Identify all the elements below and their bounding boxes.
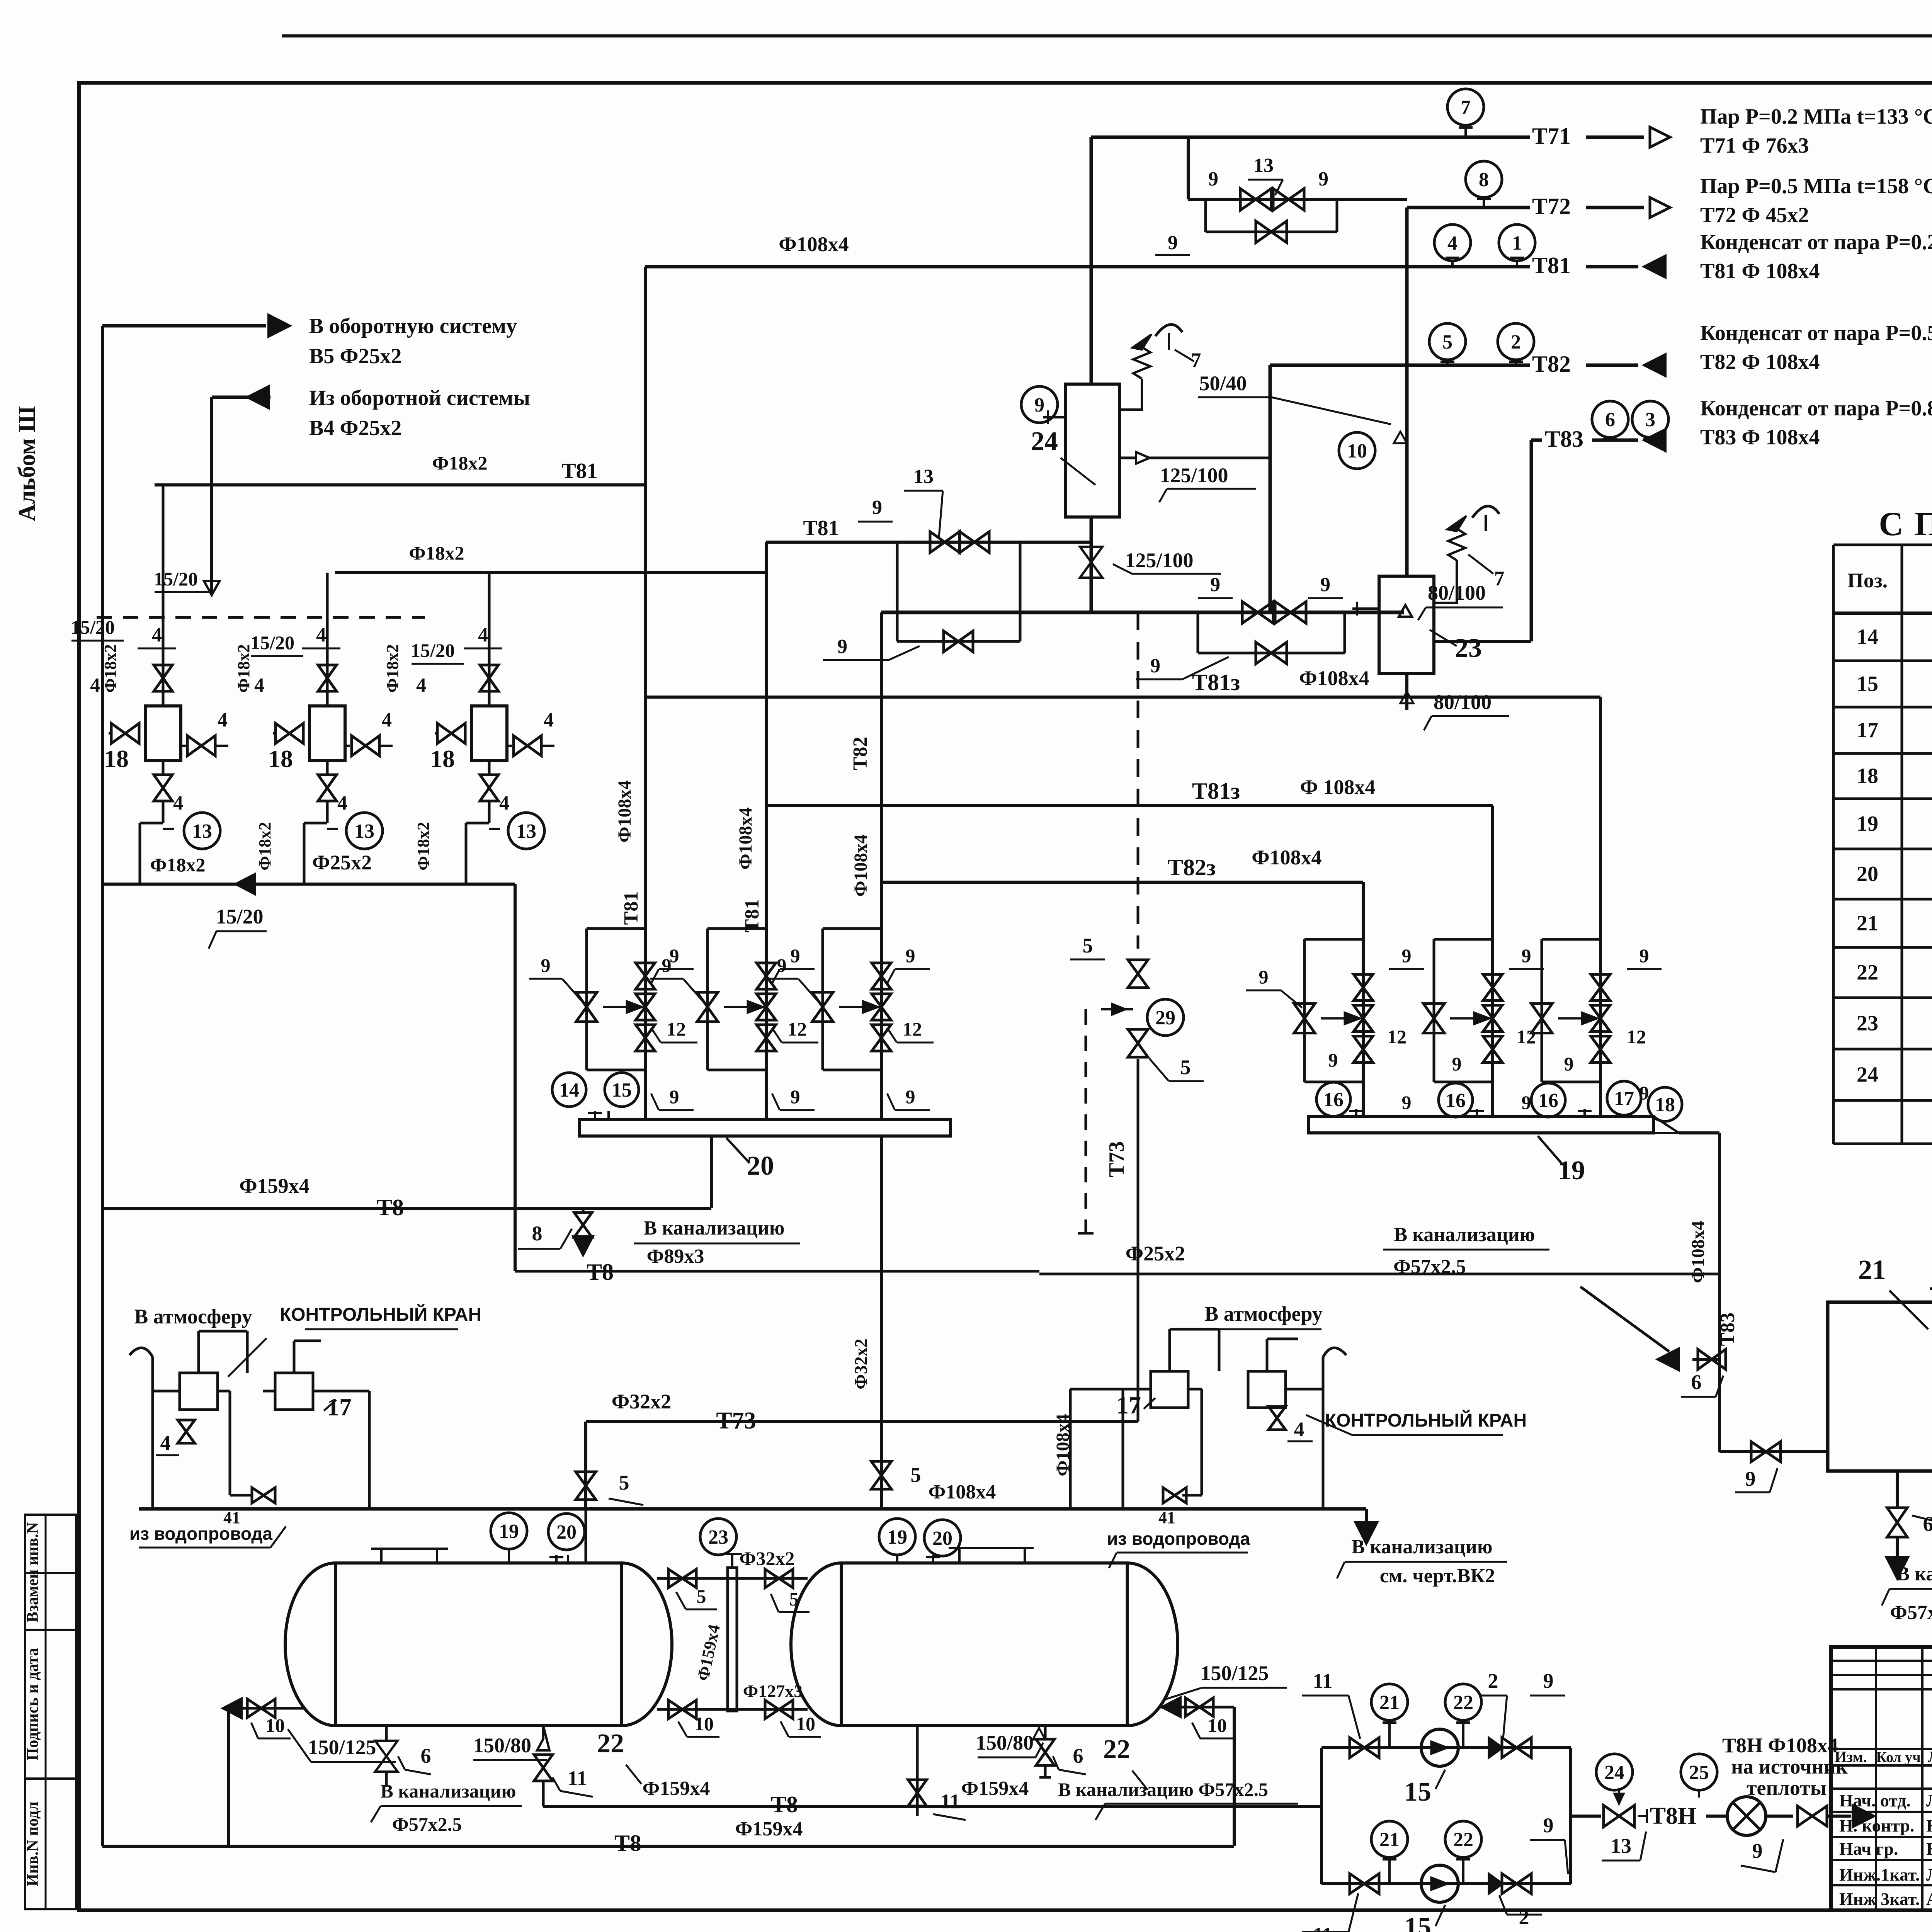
svg-text:4: 4 [478,624,488,646]
svg-text:17: 17 [1116,1391,1141,1419]
svg-text:150/125: 150/125 [1200,1662,1269,1685]
svg-text:16: 16 [1538,1090,1558,1112]
svg-text:6: 6 [1923,1512,1932,1536]
svg-text:6: 6 [1691,1371,1702,1394]
svg-text:2: 2 [1519,1906,1529,1929]
svg-text:150/80: 150/80 [473,1734,531,1757]
svg-text:9: 9 [541,954,551,976]
svg-text:Конденсат от пара Р=0.2 МПа t=: Конденсат от пара Р=0.2 МПа t=133 °С [1700,230,1932,254]
svg-text:4: 4 [382,709,392,731]
svg-text:Ф108х4: Ф108х4 [1252,846,1321,869]
svg-text:Т81з: Т81з [1192,778,1240,804]
svg-text:Т81: Т81 [620,891,642,925]
svg-text:9: 9 [1318,168,1328,190]
svg-text:см. черт.ВК2: см. черт.ВК2 [1380,1565,1495,1587]
svg-text:21: 21 [1379,1692,1400,1714]
svg-text:10: 10 [265,1714,285,1736]
svg-text:Т8: Т8 [614,1830,641,1856]
svg-text:9: 9 [1402,945,1412,966]
svg-text:9: 9 [906,945,915,966]
svg-text:Ф18х2: Ф18х2 [150,854,206,876]
svg-text:15: 15 [1404,1912,1431,1932]
svg-text:Ф18х2: Ф18х2 [101,644,120,693]
svg-text:Инж 3кат.: Инж 3кат. [1839,1889,1920,1909]
svg-text:22: 22 [1857,961,1878,985]
svg-text:15/20: 15/20 [154,568,198,590]
svg-text:125/100: 125/100 [1125,549,1193,572]
svg-text:24: 24 [1604,1762,1624,1784]
svg-text:9: 9 [1320,574,1330,596]
svg-text:22: 22 [1453,1692,1473,1714]
svg-text:Ф108х4: Ф108х4 [779,233,849,256]
svg-text:Т8Н: Т8Н [1650,1803,1697,1829]
svg-text:2: 2 [1511,331,1521,353]
svg-text:20: 20 [556,1521,577,1543]
svg-text:9: 9 [1210,574,1220,596]
svg-text:КОНТРОЛЬНЫЙ КРАН: КОНТРОЛЬНЫЙ КРАН [1325,1410,1527,1431]
svg-text:15: 15 [1404,1777,1431,1807]
svg-text:В атмосферу: В атмосферу [1204,1302,1323,1325]
svg-text:Конденсат от пара Р=0.5 МПа t=: Конденсат от пара Р=0.5 МПа t=158 °С [1700,321,1932,345]
svg-text:Т82: Т82 [849,737,871,770]
svg-text:13: 13 [192,820,212,842]
svg-text:Нач. отд.: Нач. отд. [1839,1791,1911,1810]
svg-text:Конденсат от пара Р=0.8 МПа t=: Конденсат от пара Р=0.8 МПа t=175 °С [1700,396,1932,420]
svg-text:Ф25х2: Ф25х2 [1126,1242,1185,1265]
svg-text:В канализацию: В канализацию [381,1780,516,1802]
svg-text:Т8: Т8 [377,1195,404,1220]
svg-text:9: 9 [1208,168,1218,190]
svg-text:7: 7 [1461,97,1471,119]
svg-text:Авдеева: Авдеева [1926,1889,1932,1909]
svg-text:13: 13 [516,820,536,842]
svg-text:80/100: 80/100 [1434,690,1492,714]
svg-text:20: 20 [747,1151,774,1181]
svg-text:Ф89х3: Ф89х3 [647,1245,704,1267]
svg-text:5: 5 [1083,934,1093,957]
svg-text:22: 22 [597,1729,624,1759]
svg-text:9: 9 [1639,945,1649,966]
svg-text:Т71: Т71 [1532,123,1571,149]
svg-text:Т81 Ф 108х4: Т81 Ф 108х4 [1700,259,1820,283]
svg-text:В4 Ф25х2: В4 Ф25х2 [309,416,401,440]
svg-text:13: 13 [1253,155,1274,177]
svg-text:Лопухина: Лопухина [1926,1791,1932,1810]
svg-text:17: 17 [1857,718,1878,742]
svg-text:18: 18 [104,745,129,772]
svg-text:8: 8 [532,1222,543,1245]
svg-text:Ф18х2: Ф18х2 [383,644,402,693]
svg-text:17: 17 [327,1393,352,1421]
svg-text:12: 12 [1627,1026,1646,1048]
svg-text:7: 7 [1494,567,1505,590]
svg-text:15/20: 15/20 [411,639,455,661]
svg-text:4: 4 [218,709,228,731]
svg-text:18: 18 [430,745,455,772]
svg-text:5: 5 [911,1463,921,1486]
svg-text:Т81: Т81 [803,516,839,540]
svg-text:Пар Р=0.5 МПа t=158 °С: Пар Р=0.5 МПа t=158 °С [1700,174,1932,198]
svg-text:9: 9 [872,497,882,519]
svg-text:11: 11 [940,1790,960,1813]
svg-text:из водопровода: из водопровода [129,1524,273,1544]
svg-text:Т72: Т72 [1532,194,1571,219]
svg-text:18: 18 [1857,764,1878,788]
svg-text:Т73: Т73 [716,1408,756,1434]
svg-text:9: 9 [777,954,787,976]
svg-text:В канализацию: В канализацию [1394,1224,1535,1246]
svg-text:на источник: на источник [1731,1755,1848,1778]
svg-text:9: 9 [837,636,847,658]
svg-text:13: 13 [913,466,934,488]
svg-text:15/20: 15/20 [71,616,115,638]
svg-text:Ф159х4: Ф159х4 [643,1777,710,1799]
svg-text:Т71 Ф 76х3: Т71 Ф 76х3 [1700,134,1809,158]
svg-text:9: 9 [662,954,672,976]
svg-text:Т83 Ф 108х4: Т83 Ф 108х4 [1700,425,1820,449]
svg-text:Т72 Ф 45х2: Т72 Ф 45х2 [1700,203,1809,227]
svg-text:20: 20 [932,1527,952,1549]
svg-text:Ф108х4: Ф108х4 [614,780,635,842]
svg-text:22: 22 [1103,1735,1130,1764]
svg-text:Ф108х4: Ф108х4 [735,807,756,869]
svg-text:Т8: Т8 [587,1259,614,1285]
svg-text:23: 23 [1857,1012,1878,1036]
svg-text:В канализацию: В канализацию [1352,1536,1493,1558]
svg-text:4: 4 [337,792,347,814]
svg-text:16: 16 [1323,1089,1344,1111]
svg-text:10: 10 [796,1713,815,1735]
svg-text:Ф108х4: Ф108х4 [850,834,871,896]
svg-text:4: 4 [499,792,509,814]
svg-text:В канализацию: В канализацию [644,1217,785,1239]
svg-text:13: 13 [354,820,374,842]
svg-text:Инв.N подл: Инв.N подл [24,1801,42,1886]
svg-text:4: 4 [1447,232,1458,254]
svg-text:5: 5 [1442,331,1452,353]
svg-text:8: 8 [1479,169,1489,191]
svg-text:9: 9 [906,1086,915,1107]
svg-text:18: 18 [268,745,293,772]
svg-text:14: 14 [559,1079,579,1101]
svg-text:9: 9 [1752,1839,1763,1862]
svg-text:19: 19 [1857,812,1878,836]
svg-text:Т73: Т73 [1105,1141,1129,1177]
svg-text:9: 9 [1564,1053,1574,1075]
svg-text:Т83: Т83 [1717,1313,1739,1346]
svg-text:11: 11 [1313,1669,1332,1692]
svg-text:В канализацию: В канализацию [1896,1563,1932,1585]
svg-text:Ф108х4: Ф108х4 [1299,667,1369,690]
svg-text:9: 9 [1328,1049,1338,1071]
svg-text:19: 19 [887,1526,907,1548]
svg-text:9: 9 [1452,1053,1462,1075]
svg-text:12: 12 [903,1018,922,1040]
svg-text:24: 24 [1857,1063,1878,1087]
svg-text:10: 10 [1347,440,1367,462]
svg-text:Из оборотной системы: Из оборотной системы [309,386,530,410]
svg-text:4: 4 [152,624,162,646]
svg-text:В5 Ф25х2: В5 Ф25х2 [309,344,401,368]
svg-text:Пар Р=0.2 МПа t=133 °С: Пар Р=0.2 МПа t=133 °С [1700,105,1932,129]
svg-text:23: 23 [1455,633,1482,663]
svg-text:19: 19 [499,1520,519,1543]
svg-text:9: 9 [1543,1669,1554,1692]
svg-text:В оборотную систему: В оборотную систему [309,314,517,338]
svg-text:Ф159х4: Ф159х4 [239,1174,309,1197]
svg-text:Альбом Ш: Альбом Ш [14,406,40,521]
svg-text:4: 4 [544,709,554,731]
svg-text:4: 4 [90,674,100,696]
svg-text:Ф 108х4: Ф 108х4 [1300,776,1376,799]
svg-text:9: 9 [1150,655,1160,677]
svg-text:15: 15 [612,1079,632,1101]
svg-text:4: 4 [173,792,183,814]
svg-text:Т81з: Т81з [1192,670,1240,695]
svg-text:21: 21 [1857,912,1878,935]
svg-text:Ф159х4: Ф159х4 [735,1818,803,1840]
svg-text:Т81: Т81 [1532,253,1571,278]
svg-text:Инж.1кат.: Инж.1кат. [1839,1865,1920,1884]
svg-text:Лист: Лист [1928,1748,1932,1765]
svg-text:18: 18 [1655,1094,1675,1116]
svg-text:4: 4 [254,674,264,696]
svg-text:22: 22 [1453,1829,1473,1851]
svg-text:15: 15 [1857,672,1878,696]
svg-text:10: 10 [694,1713,714,1735]
svg-text:В атмосферу: В атмосферу [134,1305,252,1328]
svg-text:Ф127х3: Ф127х3 [743,1681,803,1701]
svg-text:2: 2 [1488,1669,1498,1692]
svg-text:из водопровода: из водопровода [1107,1529,1250,1549]
svg-text:Ф57х2.5: Ф57х2.5 [1393,1256,1466,1278]
svg-text:3: 3 [1645,409,1655,431]
svg-text:4: 4 [1294,1418,1304,1441]
svg-text:Т81: Т81 [561,459,597,483]
svg-text:16: 16 [1446,1090,1466,1112]
svg-text:24: 24 [1031,427,1058,456]
svg-text:Ф32х2: Ф32х2 [740,1548,795,1569]
svg-text:В канализацию Ф57х2.5: В канализацию Ф57х2.5 [1058,1779,1268,1800]
svg-text:Т8: Т8 [771,1792,798,1817]
svg-text:Подпись и дата: Подпись и дата [24,1648,42,1760]
svg-text:6: 6 [1605,409,1615,431]
svg-text:150/80: 150/80 [976,1731,1034,1754]
svg-text:15/20: 15/20 [216,905,263,928]
svg-text:Т83: Т83 [1545,426,1583,452]
svg-text:1: 1 [1512,232,1522,254]
svg-text:5: 5 [1180,1056,1191,1079]
svg-text:Ф18х2: Ф18х2 [432,452,488,474]
svg-text:Т8Н Ф108х4: Т8Н Ф108х4 [1722,1734,1838,1757]
svg-text:11: 11 [567,1767,587,1790]
svg-text:Т82: Т82 [1532,351,1571,377]
svg-text:21: 21 [1858,1254,1886,1285]
svg-text:Нач гр.: Нач гр. [1839,1839,1898,1859]
svg-text:Т82з: Т82з [1168,855,1216,880]
svg-text:12: 12 [1387,1026,1406,1048]
svg-text:9: 9 [791,1086,800,1107]
svg-text:9: 9 [670,1086,679,1107]
svg-text:9: 9 [1259,966,1269,988]
svg-text:Ф18х2: Ф18х2 [414,822,433,871]
svg-text:15/20: 15/20 [250,632,294,653]
svg-text:6: 6 [1073,1744,1083,1767]
svg-text:125/100: 125/100 [1160,464,1228,487]
svg-text:Т82 Ф 108х4: Т82 Ф 108х4 [1700,350,1820,374]
svg-text:Калякин: Калякин [1926,1816,1932,1835]
svg-text:9: 9 [1522,945,1531,966]
svg-text:23: 23 [708,1526,728,1548]
svg-text:5: 5 [789,1588,799,1610]
svg-text:Ф57х2.5: Ф57х2.5 [392,1813,462,1835]
svg-text:4: 4 [316,624,326,646]
svg-text:25: 25 [1689,1762,1709,1784]
svg-text:14: 14 [1857,625,1878,649]
svg-text:9: 9 [1543,1814,1554,1837]
svg-text:теплоты: теплоты [1747,1776,1827,1799]
svg-text:11: 11 [1313,1923,1332,1932]
svg-text:9: 9 [1034,394,1044,416]
svg-text:6: 6 [421,1744,431,1767]
svg-text:Поз.: Поз. [1847,569,1888,592]
svg-text:12: 12 [667,1018,686,1040]
svg-text:Ф159х4: Ф159х4 [961,1777,1029,1799]
svg-text:5: 5 [697,1585,706,1607]
svg-text:29: 29 [1155,1007,1175,1029]
svg-text:Калякин: Калякин [1926,1839,1932,1859]
svg-text:10: 10 [1207,1714,1227,1736]
svg-text:9: 9 [791,945,800,966]
svg-text:41: 41 [1158,1508,1175,1527]
svg-text:17: 17 [1614,1088,1634,1110]
svg-text:Н. контр.: Н. контр. [1839,1816,1914,1835]
svg-text:4: 4 [160,1431,171,1454]
svg-text:Ф32х2: Ф32х2 [612,1390,671,1413]
svg-text:12: 12 [787,1018,807,1040]
svg-text:Ф18х2: Ф18х2 [234,644,253,693]
svg-text:Лысикова: Лысикова [1926,1865,1932,1884]
svg-text:150/125: 150/125 [308,1736,376,1759]
svg-text:Ф18х2: Ф18х2 [255,822,274,871]
svg-text:41: 41 [223,1508,240,1527]
svg-text:Ф108х4: Ф108х4 [929,1481,996,1503]
svg-text:Ф32х2: Ф32х2 [851,1338,871,1389]
svg-text:КОНТРОЛЬНЫЙ КРАН: КОНТРОЛЬНЫЙ КРАН [280,1304,481,1325]
svg-text:СПЕЦИФИКАЦИЯ: СПЕЦИФИКАЦИЯ [1879,505,1932,543]
svg-text:5: 5 [619,1471,629,1494]
svg-text:9: 9 [1522,1092,1531,1113]
svg-text:12: 12 [1517,1026,1536,1048]
svg-text:Ф25х2: Ф25х2 [312,851,372,874]
svg-text:Кол уч: Кол уч [1876,1749,1920,1765]
svg-text:9: 9 [1745,1467,1756,1490]
svg-text:50/40: 50/40 [1199,372,1247,395]
svg-text:20: 20 [1857,862,1878,886]
svg-text:13: 13 [1611,1834,1631,1857]
svg-text:19: 19 [1558,1156,1585,1185]
svg-text:Ф18х2: Ф18х2 [409,542,464,564]
svg-text:Ф57х2.5: Ф57х2.5 [1890,1602,1932,1624]
svg-text:21: 21 [1379,1829,1400,1851]
svg-text:9: 9 [1402,1092,1412,1113]
svg-text:4: 4 [416,674,426,696]
svg-text:9: 9 [1168,232,1178,254]
